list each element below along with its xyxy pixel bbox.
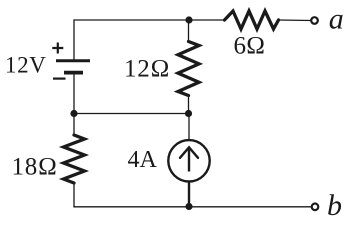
current source arrow shaft [188, 150, 190, 172]
current source arrow head [180, 147, 198, 158]
node left-middle junction dot [70, 110, 77, 117]
battery plus sign [52, 43, 63, 54]
node A junction dot top [185, 16, 192, 23]
resistor 12ohm vertical zigzag [178, 42, 199, 96]
wire middle horizontal from left node to 12-ohm node [74, 113, 189, 115]
wire left vertical from top wire down to battery [73, 19, 75, 60]
node middle junction dot at 12-ohm bottom [185, 110, 192, 117]
svg-text:12Ω: 12Ω [124, 56, 170, 83]
battery V1 12V long plate [56, 59, 90, 62]
wire left vertical from battery to middle node [73, 73, 75, 114]
svg-text:4A: 4A [128, 147, 158, 173]
wire vertical from node A down to 12-ohm resistor [188, 20, 190, 42]
wire from 18-ohm resistor to bottom wire [73, 183, 75, 207]
svg-text:12V: 12V [5, 53, 46, 78]
node bottom junction dot [185, 203, 192, 210]
wire top-left horizontal from battery branch to node A [74, 19, 189, 21]
wire bottom horizontal from 18-ohm branch to terminal b [73, 206, 311, 208]
svg-text:b: b [327, 189, 342, 222]
terminal a open circle [311, 17, 318, 24]
svg-text:a: a [329, 3, 344, 36]
current source I1 4A circle [168, 140, 209, 181]
terminal b open circle [312, 204, 319, 211]
resistor 6ohm horizontal zigzag [225, 11, 279, 29]
wire from 12-ohm resistor to middle node [188, 96, 190, 114]
svg-text:6Ω: 6Ω [234, 33, 266, 60]
resistor 18ohm vertical zigzag [64, 135, 85, 183]
wire vertical from current source bottom to bottom node [188, 182, 190, 207]
wire vertical from middle node to current source top [188, 114, 190, 140]
wire left vertical from middle node to 18-ohm resistor [73, 114, 75, 136]
battery V1 12V short plate [64, 71, 83, 75]
wire top horizontal from node A to 6-ohm resistor [189, 19, 225, 21]
wire from 6-ohm resistor to terminal a [279, 19, 311, 22]
svg-text:18Ω: 18Ω [12, 154, 58, 181]
battery minus sign [53, 77, 66, 79]
